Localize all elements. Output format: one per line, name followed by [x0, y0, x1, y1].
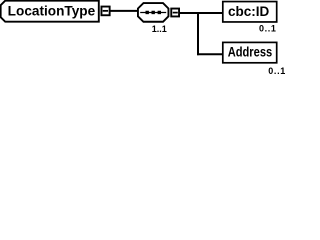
svg-text:0..1: 0..1	[268, 66, 285, 76]
complexType LocationType	[1, 1, 99, 22]
wire: vertical trunk	[197, 12, 199, 55]
svg-text:0..1: 0..1	[259, 24, 276, 34]
element Address	[223, 42, 277, 62]
wire: LocationType to sequence	[111, 10, 138, 12]
expand box 2 (minus)	[171, 9, 179, 17]
expand box 1 (minus)	[101, 7, 109, 16]
wire: branch to cbc:ID	[197, 12, 222, 14]
svg-text:cbc:ID: cbc:ID	[228, 4, 270, 19]
wire: branch to Address	[197, 53, 222, 55]
sequence compositor	[138, 3, 169, 22]
svg-text:1..1: 1..1	[152, 24, 167, 34]
element cbc:ID	[223, 2, 277, 22]
svg-text:Address: Address	[228, 44, 273, 59]
svg-text:LocationType: LocationType	[8, 3, 96, 18]
wire: sequence to trunk	[180, 12, 199, 14]
